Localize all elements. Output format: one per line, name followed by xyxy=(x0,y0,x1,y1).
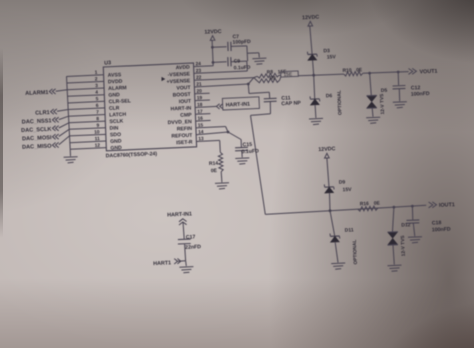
svg-text:C17: C17 xyxy=(186,234,196,240)
svg-text:R14: R14 xyxy=(209,161,219,167)
svg-text:D11: D11 xyxy=(345,227,354,233)
svg-text:HART-IN: HART-IN xyxy=(170,105,191,112)
svg-text:IOUT: IOUT xyxy=(179,99,192,106)
svg-text:OPTIONAL: OPTIONAL xyxy=(336,90,343,115)
svg-text:0E: 0E xyxy=(356,67,363,73)
svg-text:DAC_NSS1: DAC_NSS1 xyxy=(22,118,52,125)
svg-text:DVVD_EN: DVVD_EN xyxy=(168,119,193,126)
svg-text:ISET-R: ISET-R xyxy=(176,139,193,146)
svg-text:0.1uFD: 0.1uFD xyxy=(241,148,259,155)
svg-text:D9: D9 xyxy=(339,180,346,186)
svg-text:CMP: CMP xyxy=(180,112,192,119)
svg-text:15V: 15V xyxy=(327,54,337,60)
svg-text:GND: GND xyxy=(110,138,122,145)
svg-text:ALARM: ALARM xyxy=(108,85,127,92)
svg-text:C18: C18 xyxy=(432,220,442,226)
svg-text:DAC_SCLK: DAC_SCLK xyxy=(21,127,52,134)
svg-text:-VSENSE: -VSENSE xyxy=(168,71,191,78)
svg-text:C15: C15 xyxy=(243,142,253,148)
svg-text:AVSS: AVSS xyxy=(108,72,122,79)
svg-text:DAC_MISO: DAC_MISO xyxy=(22,143,52,150)
svg-text:GND: GND xyxy=(110,145,122,152)
svg-text:15E: 15E xyxy=(283,72,293,78)
svg-text:12-V TVS: 12-V TVS xyxy=(379,93,386,115)
svg-text:0E: 0E xyxy=(211,168,218,174)
svg-text:OPTIONAL: OPTIONAL xyxy=(352,239,359,264)
svg-text:VOUT: VOUT xyxy=(176,85,191,92)
svg-text:VOUT1: VOUT1 xyxy=(419,69,437,76)
svg-text:HART1: HART1 xyxy=(153,260,171,267)
svg-text:DAC_MOSI: DAC_MOSI xyxy=(22,135,52,142)
svg-text:R10: R10 xyxy=(342,68,352,74)
svg-text:12-V TVS: 12-V TVS xyxy=(400,235,407,257)
svg-text:LATCH: LATCH xyxy=(109,112,126,119)
svg-text:CLR1: CLR1 xyxy=(35,110,50,117)
svg-text:100nFD: 100nFD xyxy=(411,91,430,98)
svg-text:SDO: SDO xyxy=(110,132,121,138)
svg-text:CLR-SEL: CLR-SEL xyxy=(109,98,131,105)
svg-text:ALARM1: ALARM1 xyxy=(25,90,49,97)
svg-text:AVDD: AVDD xyxy=(176,65,191,72)
svg-text:12VDC: 12VDC xyxy=(204,29,221,36)
svg-text:SCLK: SCLK xyxy=(109,118,123,125)
svg-text:22nFD: 22nFD xyxy=(185,244,201,251)
svg-text:100nFD: 100nFD xyxy=(432,227,451,234)
svg-text:C9: C9 xyxy=(234,59,241,65)
svg-text:HART-IN1: HART-IN1 xyxy=(226,102,251,109)
svg-text:12VDC: 12VDC xyxy=(302,15,319,22)
svg-text:CLR: CLR xyxy=(109,105,120,111)
svg-text:GND: GND xyxy=(108,92,120,99)
svg-text:DVDD: DVDD xyxy=(108,79,123,86)
svg-text:BOOST: BOOST xyxy=(173,92,192,99)
svg-text:15V: 15V xyxy=(343,187,353,193)
svg-text:D3: D3 xyxy=(323,48,330,54)
svg-text:R8: R8 xyxy=(267,69,274,75)
svg-text:DAC8760(TSSOP-24): DAC8760(TSSOP-24) xyxy=(106,151,158,159)
svg-text:DIN: DIN xyxy=(110,125,119,131)
svg-text:IOUT1: IOUT1 xyxy=(439,202,455,209)
svg-text:CAP NP: CAP NP xyxy=(281,100,301,107)
svg-text:+VSENSE: +VSENSE xyxy=(166,78,190,85)
svg-text:R9: R9 xyxy=(269,75,276,81)
svg-text:HART-IN1: HART-IN1 xyxy=(167,211,192,218)
svg-text:0E: 0E xyxy=(374,200,381,206)
svg-text:REFIN: REFIN xyxy=(177,126,193,133)
svg-text:D5: D5 xyxy=(381,88,388,94)
svg-text:REFOUT: REFOUT xyxy=(171,133,193,140)
svg-text:U3: U3 xyxy=(104,60,111,66)
svg-text:D6: D6 xyxy=(326,93,333,99)
svg-text:100pFD: 100pFD xyxy=(233,39,252,46)
svg-text:R16: R16 xyxy=(360,201,370,207)
svg-text:12VDC: 12VDC xyxy=(318,146,335,153)
svg-text:0.1uFD: 0.1uFD xyxy=(234,65,251,72)
